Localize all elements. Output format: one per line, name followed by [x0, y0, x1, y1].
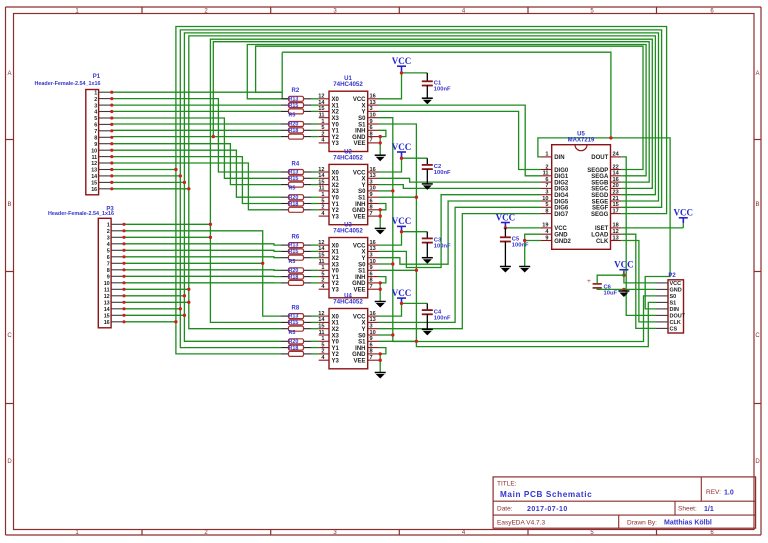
svg-text:10: 10 [370, 186, 376, 192]
svg-text:13: 13 [370, 100, 376, 106]
svg-text:Y3: Y3 [332, 359, 340, 365]
svg-text:1: 1 [94, 90, 97, 96]
svg-text:B: B [755, 202, 759, 208]
svg-text:SEGB: SEGB [591, 180, 609, 186]
svg-text:R18: R18 [289, 201, 299, 207]
svg-text:18: 18 [613, 223, 619, 229]
svg-text:7: 7 [370, 211, 373, 217]
svg-text:SEGE: SEGE [592, 199, 609, 205]
svg-text:9: 9 [370, 192, 373, 198]
svg-text:MAX7219: MAX7219 [568, 137, 595, 143]
svg-text:Date:: Date: [497, 506, 513, 513]
svg-text:X1: X1 [332, 321, 340, 327]
svg-text:SEGDP: SEGDP [587, 168, 608, 174]
svg-text:2: 2 [545, 164, 548, 170]
svg-text:2017-07-10: 2017-07-10 [527, 506, 568, 513]
svg-text:Y1: Y1 [332, 129, 340, 135]
svg-text:DOUT: DOUT [670, 314, 686, 320]
svg-text:VCC: VCC [392, 56, 412, 66]
svg-text:VEE: VEE [353, 141, 365, 147]
svg-text:VEE: VEE [353, 214, 365, 220]
svg-text:10: 10 [370, 259, 376, 265]
svg-text:R6: R6 [292, 235, 300, 241]
svg-text:14: 14 [318, 246, 325, 252]
svg-text:10uF: 10uF [604, 291, 618, 297]
svg-text:SEGD: SEGD [591, 193, 609, 199]
svg-text:VEE: VEE [353, 288, 365, 294]
svg-text:21: 21 [613, 196, 619, 202]
svg-text:3: 3 [370, 106, 373, 112]
svg-text:DOUT: DOUT [591, 155, 608, 161]
svg-text:Y1: Y1 [332, 346, 340, 352]
svg-text:14: 14 [91, 174, 97, 180]
svg-text:C4: C4 [434, 309, 442, 315]
svg-text:C: C [7, 333, 12, 339]
svg-text:S1: S1 [358, 122, 366, 128]
svg-text:15: 15 [104, 314, 110, 320]
svg-text:9: 9 [370, 336, 373, 342]
svg-text:X1: X1 [332, 103, 340, 109]
svg-text:6: 6 [94, 123, 97, 129]
svg-text:DIG4: DIG4 [554, 193, 569, 199]
svg-text:7: 7 [545, 183, 548, 189]
svg-text:6: 6 [370, 271, 373, 277]
svg-text:R2: R2 [292, 88, 300, 94]
svg-text:C2: C2 [434, 164, 441, 170]
svg-text:13: 13 [613, 235, 619, 241]
svg-text:SEGC: SEGC [591, 187, 609, 193]
svg-text:S1: S1 [670, 301, 677, 307]
svg-text:8: 8 [107, 268, 110, 274]
svg-text:GND: GND [352, 208, 366, 214]
svg-text:9: 9 [545, 235, 548, 241]
svg-text:16: 16 [370, 94, 376, 100]
svg-text:DIN: DIN [670, 307, 680, 313]
svg-text:DIG6: DIG6 [554, 206, 569, 212]
svg-text:Header-Female-2.54_1x16: Header-Female-2.54_1x16 [35, 81, 101, 87]
svg-text:S1: S1 [358, 196, 366, 202]
svg-text:R13: R13 [289, 170, 299, 176]
svg-text:14: 14 [318, 173, 325, 179]
svg-text:X1: X1 [332, 250, 340, 256]
svg-text:15: 15 [318, 106, 324, 112]
svg-text:100nF: 100nF [512, 243, 529, 249]
svg-text:X: X [361, 103, 365, 109]
svg-text:17: 17 [613, 208, 619, 214]
svg-text:X0: X0 [332, 243, 340, 249]
svg-text:5: 5 [94, 116, 97, 122]
svg-text:20: 20 [613, 183, 619, 189]
svg-text:12: 12 [318, 311, 324, 317]
svg-text:D: D [755, 459, 760, 465]
svg-text:7: 7 [370, 355, 373, 361]
svg-text:R20: R20 [289, 339, 299, 345]
svg-text:DIG5: DIG5 [554, 199, 569, 205]
svg-text:10: 10 [370, 113, 376, 119]
svg-text:2: 2 [321, 131, 324, 137]
svg-text:14: 14 [104, 307, 110, 313]
svg-text:VCC: VCC [392, 216, 412, 226]
svg-text:12: 12 [318, 240, 324, 246]
svg-text:INH: INH [355, 346, 365, 352]
svg-text:X2: X2 [332, 183, 340, 189]
svg-text:10: 10 [370, 330, 376, 336]
svg-text:1.0: 1.0 [724, 490, 734, 497]
svg-text:X: X [361, 321, 365, 327]
svg-text:11: 11 [104, 288, 110, 294]
svg-text:Drawn By:: Drawn By: [627, 519, 657, 526]
svg-text:3: 3 [545, 190, 548, 196]
svg-text:5: 5 [321, 271, 324, 277]
svg-text:X3: X3 [332, 333, 340, 339]
svg-text:12: 12 [613, 229, 619, 235]
svg-text:R5: R5 [289, 113, 296, 119]
svg-text:9: 9 [94, 142, 97, 148]
svg-text:15: 15 [318, 253, 324, 259]
svg-text:Y0: Y0 [332, 340, 340, 346]
svg-text:C3: C3 [434, 238, 442, 244]
svg-text:GND: GND [670, 288, 682, 294]
svg-text:VCC: VCC [674, 208, 694, 218]
svg-text:11: 11 [319, 186, 325, 192]
svg-text:5: 5 [321, 342, 324, 348]
svg-text:VCC: VCC [670, 281, 682, 287]
svg-text:Y: Y [361, 256, 365, 262]
svg-text:X2: X2 [332, 110, 340, 116]
svg-text:1: 1 [321, 192, 324, 198]
svg-text:12: 12 [91, 161, 97, 167]
svg-text:1: 1 [321, 119, 324, 125]
svg-text:X: X [361, 177, 365, 183]
svg-text:1: 1 [545, 152, 548, 158]
svg-text:Sheet:: Sheet: [678, 506, 697, 513]
svg-text:S0: S0 [358, 116, 366, 122]
svg-text:SEGA: SEGA [591, 174, 609, 180]
svg-text:R13: R13 [289, 243, 299, 249]
svg-text:R5: R5 [289, 186, 296, 192]
svg-text:+: + [587, 278, 591, 285]
svg-text:7: 7 [94, 129, 97, 135]
svg-text:Y1: Y1 [332, 202, 340, 208]
svg-text:3: 3 [370, 179, 373, 185]
svg-text:100nF: 100nF [434, 244, 451, 250]
svg-text:P2: P2 [668, 273, 676, 279]
svg-text:4: 4 [107, 242, 110, 248]
svg-text:TITLE:: TITLE: [497, 481, 517, 488]
svg-text:16: 16 [370, 311, 376, 317]
svg-text:23: 23 [613, 190, 619, 196]
svg-text:10: 10 [91, 148, 97, 154]
svg-text:74HC4052: 74HC4052 [333, 299, 363, 306]
svg-text:3: 3 [107, 236, 110, 242]
svg-text:16: 16 [613, 177, 619, 183]
svg-text:5: 5 [107, 249, 110, 255]
svg-text:100nF: 100nF [434, 170, 451, 176]
svg-text:VCC: VCC [496, 212, 516, 222]
svg-text:GND: GND [352, 135, 366, 141]
svg-text:13: 13 [370, 317, 376, 323]
svg-text:6: 6 [545, 177, 548, 183]
svg-text:10: 10 [542, 196, 548, 202]
svg-text:2: 2 [94, 97, 97, 103]
svg-text:CLK: CLK [670, 320, 681, 326]
svg-text:16: 16 [370, 167, 376, 173]
svg-text:Matthias Kölbl: Matthias Kölbl [664, 520, 712, 527]
svg-text:X0: X0 [332, 314, 340, 320]
svg-text:GND: GND [352, 281, 366, 287]
svg-text:74HC4052: 74HC4052 [333, 81, 363, 88]
svg-text:ISET: ISET [595, 226, 609, 232]
svg-text:3: 3 [94, 103, 97, 109]
svg-text:S0: S0 [358, 189, 366, 195]
svg-text:VCC: VCC [392, 288, 412, 298]
svg-text:22: 22 [613, 164, 619, 170]
svg-text:REV:: REV: [706, 489, 721, 496]
svg-text:11: 11 [543, 171, 549, 177]
svg-text:X1: X1 [332, 177, 340, 183]
svg-text:6: 6 [370, 198, 373, 204]
svg-text:100nF: 100nF [434, 315, 451, 321]
svg-text:X3: X3 [332, 116, 340, 122]
svg-text:VCC: VCC [353, 170, 366, 176]
svg-text:R18: R18 [289, 274, 299, 280]
svg-text:Y3: Y3 [332, 288, 340, 294]
svg-text:12: 12 [318, 167, 324, 173]
svg-text:CLK: CLK [596, 239, 609, 245]
svg-text:R13: R13 [289, 96, 299, 102]
svg-text:Y0: Y0 [332, 196, 340, 202]
svg-text:VCC: VCC [353, 243, 366, 249]
svg-text:DIG1: DIG1 [554, 174, 569, 180]
svg-text:VCC: VCC [353, 97, 366, 103]
svg-text:15: 15 [91, 181, 97, 187]
svg-text:VCC: VCC [554, 226, 567, 232]
svg-text:8: 8 [370, 349, 373, 355]
svg-text:2: 2 [321, 349, 324, 355]
svg-text:16: 16 [104, 320, 110, 326]
svg-text:11: 11 [319, 259, 325, 265]
svg-text:6: 6 [370, 125, 373, 131]
svg-text:R15: R15 [289, 176, 299, 182]
svg-text:3: 3 [370, 253, 373, 259]
svg-text:R20: R20 [289, 268, 299, 274]
svg-text:EasyEDA V4.7.3: EasyEDA V4.7.3 [497, 519, 545, 526]
svg-text:74HC4052: 74HC4052 [333, 228, 363, 235]
svg-text:C: C [755, 333, 760, 339]
svg-text:14: 14 [613, 171, 620, 177]
svg-text:Y0: Y0 [332, 269, 340, 275]
svg-text:7: 7 [370, 138, 373, 144]
svg-text:DIG7: DIG7 [554, 212, 569, 218]
svg-text:Y2: Y2 [332, 281, 340, 287]
svg-text:CS: CS [670, 327, 678, 333]
svg-text:100nF: 100nF [434, 87, 451, 93]
svg-text:S1: S1 [358, 340, 366, 346]
svg-text:1/1: 1/1 [704, 506, 714, 513]
svg-text:1: 1 [321, 265, 324, 271]
svg-text:C5: C5 [512, 237, 520, 243]
svg-text:DIN: DIN [554, 155, 564, 161]
svg-text:7: 7 [107, 262, 110, 268]
svg-text:R8: R8 [292, 306, 300, 312]
svg-text:VCC: VCC [614, 260, 634, 270]
svg-text:R15: R15 [289, 320, 299, 326]
svg-text:R13: R13 [289, 314, 299, 320]
svg-text:Main PCB Schematic: Main PCB Schematic [500, 490, 592, 499]
svg-text:Y3: Y3 [332, 214, 340, 220]
svg-text:R5: R5 [289, 259, 296, 265]
svg-text:3: 3 [370, 324, 373, 330]
svg-text:A: A [755, 71, 759, 77]
svg-text:X0: X0 [332, 170, 340, 176]
svg-text:6: 6 [370, 342, 373, 348]
svg-text:2: 2 [107, 229, 110, 235]
svg-text:X2: X2 [332, 327, 340, 333]
svg-text:16: 16 [91, 187, 97, 193]
svg-text:INH: INH [355, 202, 365, 208]
svg-text:13: 13 [370, 246, 376, 252]
svg-text:7: 7 [370, 284, 373, 290]
svg-text:VCC: VCC [353, 314, 366, 320]
svg-text:X0: X0 [332, 97, 340, 103]
svg-text:5: 5 [321, 198, 324, 204]
svg-text:GND: GND [352, 352, 366, 358]
svg-text:X2: X2 [332, 256, 340, 262]
svg-text:19: 19 [542, 223, 548, 229]
svg-text:8: 8 [370, 278, 373, 284]
svg-text:Y: Y [361, 110, 365, 116]
svg-text:X3: X3 [332, 189, 340, 195]
svg-text:GND2: GND2 [554, 239, 571, 245]
svg-text:13: 13 [104, 301, 110, 307]
svg-text:SEGG: SEGG [591, 212, 609, 218]
svg-text:2: 2 [321, 205, 324, 211]
svg-text:GND: GND [554, 233, 568, 239]
svg-text:5: 5 [321, 125, 324, 131]
svg-text:VCC: VCC [392, 142, 412, 152]
svg-text:6: 6 [107, 255, 110, 261]
svg-text:R20: R20 [289, 122, 299, 128]
svg-text:24: 24 [613, 152, 620, 158]
svg-text:15: 15 [613, 202, 619, 208]
svg-text:14: 14 [318, 100, 325, 106]
svg-text:9: 9 [107, 275, 110, 281]
svg-text:Header-Female-2.54_1x16: Header-Female-2.54_1x16 [48, 211, 114, 217]
svg-text:Y2: Y2 [332, 208, 340, 214]
svg-text:8: 8 [370, 205, 373, 211]
svg-text:S0: S0 [358, 262, 366, 268]
svg-text:8: 8 [94, 136, 97, 142]
svg-text:1: 1 [107, 223, 110, 229]
svg-text:X3: X3 [332, 262, 340, 268]
svg-text:2: 2 [321, 278, 324, 284]
svg-text:VEE: VEE [353, 359, 365, 365]
svg-text:13: 13 [91, 168, 97, 174]
svg-text:S1: S1 [358, 269, 366, 275]
svg-text:P1: P1 [93, 74, 101, 80]
svg-text:13: 13 [370, 173, 376, 179]
svg-text:R15: R15 [289, 249, 299, 255]
svg-text:A: A [7, 71, 11, 77]
svg-text:12: 12 [318, 94, 324, 100]
svg-text:X: X [361, 250, 365, 256]
svg-text:R15: R15 [289, 103, 299, 109]
svg-text:15: 15 [318, 324, 324, 330]
svg-text:SEGF: SEGF [592, 206, 609, 212]
svg-text:Y3: Y3 [332, 141, 340, 147]
svg-text:DIG3: DIG3 [554, 187, 569, 193]
svg-text:D: D [7, 459, 12, 465]
svg-text:11: 11 [319, 113, 325, 119]
svg-text:Y: Y [361, 183, 365, 189]
svg-text:14: 14 [318, 317, 325, 323]
svg-text:R20: R20 [289, 195, 299, 201]
svg-text:B: B [7, 202, 11, 208]
svg-text:9: 9 [370, 265, 373, 271]
svg-text:1: 1 [321, 336, 324, 342]
svg-text:C1: C1 [434, 81, 442, 87]
svg-text:Y1: Y1 [332, 275, 340, 281]
svg-text:15: 15 [318, 179, 324, 185]
svg-text:16: 16 [370, 240, 376, 246]
svg-text:INH: INH [355, 275, 365, 281]
svg-text:11: 11 [319, 330, 325, 336]
svg-text:S0: S0 [358, 333, 366, 339]
svg-text:R5: R5 [289, 330, 296, 336]
svg-text:74HC4052: 74HC4052 [333, 154, 363, 161]
svg-text:12: 12 [104, 294, 110, 300]
svg-text:Y: Y [361, 327, 365, 333]
svg-text:9: 9 [370, 119, 373, 125]
svg-text:8: 8 [370, 131, 373, 137]
svg-text:11: 11 [91, 155, 97, 161]
svg-text:R18: R18 [289, 345, 299, 351]
svg-text:R4: R4 [292, 161, 300, 167]
svg-text:S0: S0 [670, 294, 677, 300]
svg-text:8: 8 [545, 208, 548, 214]
svg-text:4: 4 [94, 110, 97, 116]
svg-text:Y2: Y2 [332, 135, 340, 141]
svg-text:Y2: Y2 [332, 352, 340, 358]
svg-text:LOAD: LOAD [591, 233, 609, 239]
svg-text:10: 10 [104, 281, 110, 287]
svg-text:INH: INH [355, 129, 365, 135]
svg-text:DIG0: DIG0 [554, 168, 569, 174]
svg-text:Y0: Y0 [332, 122, 340, 128]
svg-text:5: 5 [545, 202, 548, 208]
svg-text:R18: R18 [289, 128, 299, 134]
svg-text:DIG2: DIG2 [554, 180, 569, 186]
